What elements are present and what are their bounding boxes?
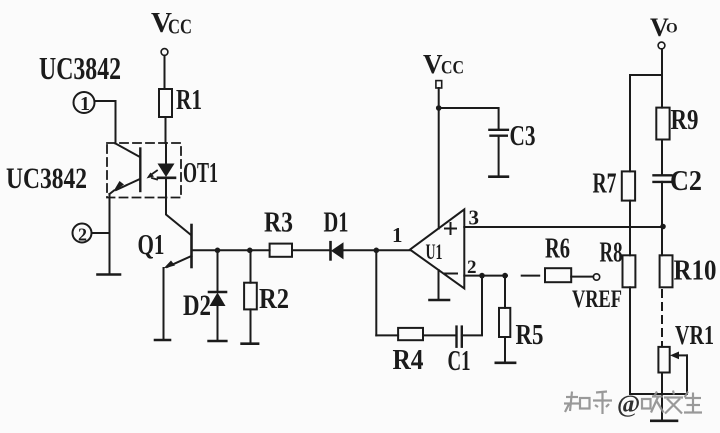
wire junction to C3 — [439, 108, 499, 129]
resistor R3 — [270, 244, 292, 257]
wire dash to R6 — [522, 275, 540, 277]
node R5 junction — [502, 273, 508, 279]
wire VR1 to ground — [661, 373, 663, 420]
svg-text:C1: C1 — [448, 345, 471, 377]
resistor R1 — [159, 89, 172, 117]
svg-text:R1: R1 — [176, 85, 202, 116]
node pin3/C2 junction — [660, 224, 666, 230]
svg-text:UC3842: UC3842 — [6, 162, 87, 195]
svg-text:1: 1 — [80, 93, 90, 115]
wire LED cathode to Q1 collector — [166, 198, 191, 236]
wire pin2 to emitter line — [92, 232, 110, 234]
svg-text:O: O — [666, 21, 678, 37]
svg-text:2: 2 — [78, 225, 87, 245]
wire C3 to ground — [498, 136, 500, 176]
resistor R7 — [622, 171, 635, 200]
node feedback junction — [374, 248, 380, 254]
capacitor C2 — [654, 175, 672, 182]
wire R8 to bottom rail — [629, 287, 631, 394]
wire Vo down — [661, 49, 663, 108]
svg-text:VR1: VR1 — [675, 320, 714, 350]
wire opto emitter down — [109, 194, 111, 273]
ground (D2) — [209, 340, 227, 343]
resistor R5 — [499, 276, 510, 362]
node Vo terminal — [658, 42, 665, 49]
svg-text:R7: R7 — [593, 169, 617, 200]
op-amp U1 — [410, 209, 464, 288]
wire C2 to R10 — [661, 182, 663, 255]
wire Q1 emitter to ground — [163, 268, 165, 339]
VR1 wiper arrow — [670, 352, 687, 395]
svg-text:R5: R5 — [516, 320, 544, 351]
svg-text:C2: C2 — [670, 165, 702, 197]
wire R1 to LED — [165, 117, 167, 143]
ground (opto emitter) — [98, 273, 121, 276]
resistor R9 — [656, 108, 669, 140]
svg-text:D2: D2 — [183, 289, 211, 322]
svg-text:R2: R2 — [259, 283, 289, 315]
wire R4 to C1 — [423, 334, 456, 336]
wire Vo branch left — [630, 75, 662, 171]
svg-text:CC: CC — [441, 58, 464, 79]
capacitor C3 — [489, 130, 508, 136]
svg-text:R4: R4 — [393, 345, 424, 376]
svg-text:V: V — [423, 49, 443, 79]
wire pin2 — [464, 275, 507, 277]
node Vcc/C3 junction — [436, 105, 442, 111]
feedback wire down — [375, 250, 377, 335]
diode D2 (zener) — [209, 250, 226, 340]
ground (Q1 emitter) — [155, 339, 170, 342]
ground (R2) — [242, 342, 259, 345]
capacitor C1 — [457, 327, 462, 347]
LED (inside OT1) — [158, 143, 176, 198]
optocoupler OT1 dashed box — [107, 143, 181, 198]
node VREF terminal — [593, 274, 599, 280]
wire R9 to C2 — [661, 140, 663, 176]
ground (R5) — [496, 361, 515, 364]
svg-text:CC: CC — [168, 15, 192, 39]
node D2 junction — [215, 248, 221, 254]
svg-text:3: 3 — [469, 206, 480, 230]
watermark zhihu — [564, 391, 702, 419]
svg-text:Q1: Q1 — [138, 230, 165, 261]
resistor R6 — [545, 268, 571, 282]
resistor R8 — [623, 255, 636, 287]
svg-text:@: @ — [617, 391, 640, 418]
wire to R4 — [376, 334, 398, 336]
op-amp minus input mark — [445, 273, 457, 275]
node Vcc terminal (op-amp, square) — [436, 81, 442, 88]
wire D1 to U1 output — [344, 249, 411, 251]
svg-text:R10: R10 — [674, 255, 717, 287]
potentiometer VR1 — [658, 347, 669, 373]
node C1 junction — [479, 273, 485, 279]
svg-text:R9: R9 — [671, 105, 699, 136]
diode D1 — [331, 242, 344, 259]
resistor R4 — [398, 328, 423, 340]
op-amp plus input mark — [445, 223, 456, 234]
svg-text:U1: U1 — [426, 239, 443, 264]
resistor R2 — [244, 250, 257, 342]
svg-text:C3: C3 — [510, 120, 536, 152]
wire U1 ground — [438, 270, 440, 299]
svg-text:OT1: OT1 — [183, 157, 218, 189]
wire Vcc down to U1 — [438, 88, 440, 229]
wire pin3 to right section — [464, 226, 663, 228]
wire bottom rail — [630, 393, 687, 395]
wire dashed R10 to VR1 — [661, 290, 663, 345]
node R2 junction — [247, 248, 253, 254]
ground (C3) — [489, 175, 508, 178]
wire pin1 to optocoupler — [95, 101, 116, 144]
node pin 1 terminal — [74, 92, 95, 113]
svg-text:VREF: VREF — [572, 286, 622, 313]
node Vcc terminal (left) — [161, 49, 168, 56]
ground (U1) — [430, 299, 450, 302]
svg-text:R8: R8 — [600, 238, 623, 269]
svg-text:UC3842: UC3842 — [39, 50, 121, 86]
wire R6 to VREF terminal — [571, 276, 593, 278]
phototransistor (inside OT1) — [110, 144, 141, 195]
ground (right section) — [651, 419, 677, 422]
wire R3 to D1 — [292, 249, 330, 251]
light arrow — [147, 171, 158, 180]
svg-text:R3: R3 — [264, 208, 293, 239]
svg-text:1: 1 — [392, 223, 403, 247]
wire Q1 base to R3 — [192, 249, 270, 251]
wire C1 up to pin2 — [462, 276, 482, 336]
wire Vcc to R1 — [164, 56, 166, 90]
wire R7 to R8 — [629, 201, 631, 256]
resistor R10 — [660, 255, 673, 287]
node pin 2 terminal — [73, 224, 92, 243]
svg-text:D1: D1 — [324, 208, 349, 239]
svg-text:R6: R6 — [545, 234, 570, 265]
transistor Q1 — [164, 225, 192, 269]
